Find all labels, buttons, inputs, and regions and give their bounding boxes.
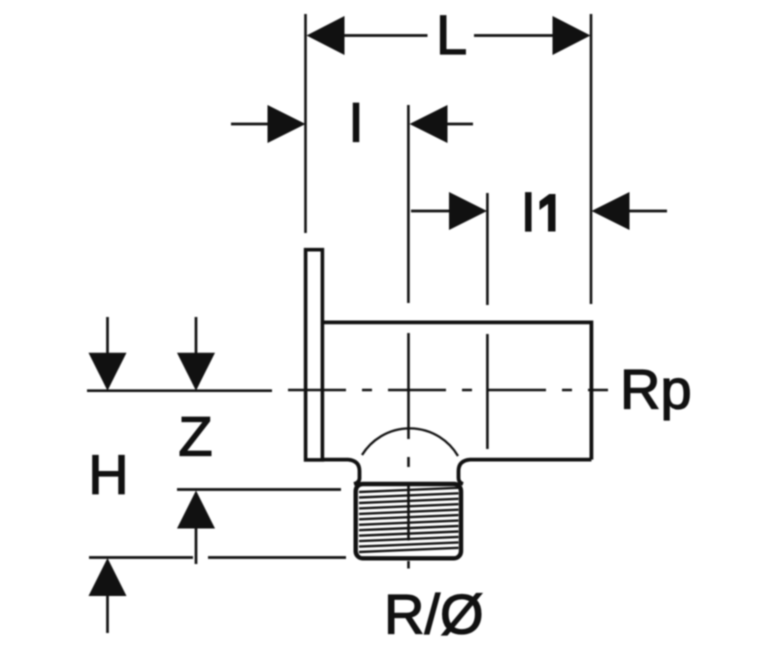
svg-text:L: L: [436, 3, 467, 66]
svg-text:I: I: [521, 180, 537, 243]
svg-text:Rp: Rp: [620, 358, 692, 421]
svg-text:R/Ø: R/Ø: [384, 583, 484, 646]
svg-text:I: I: [348, 91, 364, 154]
svg-text:H: H: [88, 443, 128, 506]
svg-text:Z: Z: [178, 405, 212, 468]
